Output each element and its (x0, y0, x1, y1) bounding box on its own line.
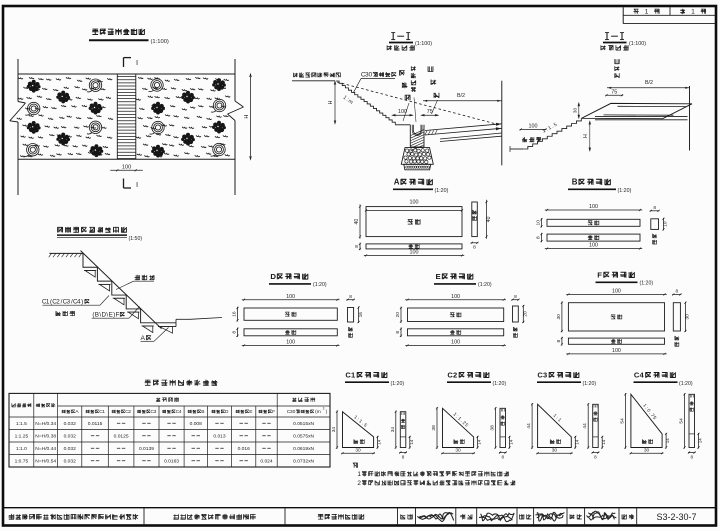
svg-text:54: 54 (619, 418, 625, 424)
A plan height dim 40 (354, 204, 361, 238)
svg-text:1:1.5: 1:1.5 (16, 421, 27, 427)
svg-text:30: 30 (572, 108, 577, 114)
svg-text:(1:20): (1:20) (435, 188, 449, 194)
label 护坡道 (522, 137, 541, 142)
dimension B/2 (cut) (423, 93, 502, 102)
svg-text:100: 100 (589, 243, 598, 249)
elevation slope rectangle outline (10, 59, 244, 195)
C4 front width dim 8 (688, 451, 696, 459)
svg-text:0.0619xN: 0.0619xN (293, 446, 314, 452)
svg-text:14: 14 (665, 438, 670, 444)
C1 right dim 14 (377, 436, 382, 449)
D elevation view 立面 (244, 329, 337, 336)
C4 height dim 54 (619, 393, 626, 449)
shoulder edge height dim 30 (572, 103, 579, 118)
C2 side profile trapezoid 侧面 (443, 408, 474, 447)
svg-text:H: H (328, 100, 334, 104)
A bottom dim 100 (364, 249, 464, 256)
svg-text:N=H/0.44: N=H/0.44 (35, 446, 56, 452)
F plan view 平面 (568, 303, 664, 331)
embankment top parallelogram and road lines (582, 103, 693, 119)
svg-text:38: 38 (431, 425, 437, 431)
svg-text:0.0139: 0.0139 (139, 446, 154, 452)
svg-text:8: 8 (473, 245, 476, 251)
C1 front height dim 34 (390, 411, 397, 449)
svg-text:14: 14 (601, 439, 606, 445)
cut slope steps zigzag (336, 81, 395, 125)
svg-text:44: 44 (582, 423, 588, 429)
C2 front width dim 8 (499, 451, 507, 459)
svg-text:(1:20): (1:20) (313, 282, 327, 288)
svg-text:30: 30 (644, 447, 650, 453)
C3 height dim 44 (526, 403, 533, 449)
C3 side profile trapezoid 侧面 (538, 404, 572, 447)
svg-text:N=H/0.34: N=H/0.34 (35, 421, 56, 427)
svg-text:75: 75 (427, 109, 433, 115)
F side view 侧面 (672, 289, 690, 347)
svg-text:0: 0 (368, 72, 372, 79)
F elevation view 立面 (568, 338, 664, 344)
title C4块大样图 (634, 371, 693, 387)
svg-text:8: 8 (232, 331, 238, 334)
svg-text:0.0732xN: 0.0732xN (293, 459, 314, 465)
notes 注 1 2 (353, 463, 515, 487)
svg-text:30: 30 (685, 314, 691, 320)
A block elevation view 立面 (366, 244, 462, 249)
title 台阶板块布置示意图 (1:50) (57, 227, 142, 242)
svg-text:20: 20 (395, 312, 401, 318)
C1 front view 立面 (400, 412, 406, 448)
embankment height dim H (583, 122, 590, 151)
staircase arrangement blocks (81, 251, 223, 334)
dimension 100 (碎落台) (393, 109, 413, 116)
svg-text:54: 54 (679, 418, 685, 424)
ground line with hatching (49, 253, 83, 257)
svg-text:1: 1 (645, 9, 649, 16)
svg-text:4: 4 (179, 409, 182, 415)
svg-text:100: 100 (398, 109, 407, 115)
C2 bottom dim 30 (441, 447, 475, 454)
A block side view 侧面 (472, 202, 478, 237)
svg-text:14: 14 (509, 439, 514, 445)
drawing title cell (318, 514, 364, 520)
svg-text:100: 100 (410, 200, 419, 206)
svg-text:0.0115: 0.0115 (88, 421, 103, 427)
svg-text:8: 8 (556, 340, 562, 343)
svg-text:38: 38 (490, 425, 496, 431)
svg-text:(1:100): (1:100) (415, 41, 432, 47)
cut slope height dim H (328, 82, 336, 124)
label 路堑平台(被顶) and platform line (292, 72, 341, 80)
B elevation height dim 8 (536, 233, 543, 242)
svg-text:F: F (272, 409, 275, 415)
svg-text:0.032: 0.032 (64, 446, 77, 452)
title bar grid (3, 508, 716, 526)
label 一审 (519, 514, 531, 519)
svg-text:3: 3 (543, 371, 547, 380)
svg-text:44: 44 (526, 423, 532, 429)
C1 height dim 34 (331, 411, 338, 449)
A side height dim 40 (485, 200, 492, 239)
table title 人行踏步工程数量表 (145, 380, 218, 386)
svg-text:14: 14 (409, 439, 414, 445)
svg-text:8: 8 (501, 454, 504, 459)
signature 一审 (535, 512, 564, 521)
C4 slope label 1:0.75 (641, 403, 657, 421)
signature 复核 (479, 513, 514, 522)
C1 slope label 1:1.5 (352, 414, 368, 428)
C4 front view 立面 (689, 394, 695, 447)
vertical label 土路肩 (embankment) (615, 59, 620, 78)
original ground dashed line (337, 82, 500, 125)
C4 right dim 14 (665, 433, 670, 449)
svg-text:m: m (317, 410, 321, 415)
svg-text:(1:20): (1:20) (493, 381, 507, 387)
signature 二审 (586, 511, 616, 520)
title A块大样图 (1:20) (393, 178, 449, 194)
svg-text:F: F (116, 312, 120, 319)
svg-text:100: 100 (612, 348, 621, 354)
svg-text:30: 30 (455, 447, 461, 453)
svg-text:1: 1 (691, 9, 695, 16)
svg-text:2: 2 (128, 409, 131, 415)
road surface lines (cut section) (425, 123, 502, 142)
svg-text:D: D (270, 272, 276, 281)
dimension B/2 (embankment) (607, 80, 690, 89)
dimension 100 below ladder (110, 164, 143, 171)
svg-text:0.013: 0.013 (213, 434, 226, 440)
title 人行踏步立面图 (1:100) (89, 29, 169, 45)
svg-text:40: 40 (486, 216, 492, 222)
svg-text:1:1.25: 1:1.25 (15, 434, 29, 440)
A block plan view 平面 (365, 200, 463, 237)
D side view 侧面 (346, 294, 363, 338)
svg-text:(1:50): (1:50) (129, 236, 143, 242)
svg-text:I: I (136, 58, 138, 67)
C4 front height dim 54 (679, 393, 686, 448)
svg-text:S3-2-30-7: S3-2-30-7 (656, 512, 696, 522)
svg-text:100: 100 (286, 340, 295, 346)
E plan height dim 20 (395, 307, 402, 323)
E top dim 100 (405, 294, 506, 301)
title B块大样图 (1:20) (568, 178, 632, 194)
svg-text:8: 8 (395, 331, 401, 334)
svg-text:0.024: 0.024 (260, 459, 273, 465)
E bottom dim 100 (405, 340, 506, 347)
centerline (embankment) (689, 86, 691, 151)
svg-text:3: 3 (154, 409, 157, 415)
B block elevation view 立面 (547, 234, 640, 241)
C3 slope label 1:1 (552, 413, 563, 424)
F bottom dim 100 (566, 348, 667, 355)
svg-text:): ) (81, 299, 83, 306)
svg-text:N=H/0.54: N=H/0.54 (35, 459, 56, 465)
dimension 75 (边沟) (422, 109, 439, 116)
title C3块大样图 (537, 371, 596, 387)
svg-text:100: 100 (589, 204, 598, 210)
svg-text:0.032: 0.032 (64, 434, 77, 440)
B block side view 侧面 (650, 205, 669, 244)
svg-text:16: 16 (358, 312, 364, 318)
svg-text:E: E (436, 272, 441, 281)
side ditch U channel (395, 125, 424, 151)
svg-text:B: B (95, 312, 99, 319)
vertical label 碎落台 (399, 70, 410, 121)
B bottom dim 100 (545, 243, 642, 250)
svg-text:100: 100 (122, 164, 131, 170)
svg-text:20: 20 (523, 311, 529, 317)
svg-text:1: 1 (351, 371, 355, 380)
svg-text:100: 100 (451, 294, 460, 300)
svg-text:(1:100): (1:100) (151, 39, 169, 45)
svg-text:10: 10 (663, 221, 669, 227)
E elevation height dim 8 (395, 328, 402, 337)
svg-text:A: A (394, 178, 400, 187)
C3 front view 立面 (593, 404, 599, 447)
svg-text:0.0163: 0.0163 (164, 459, 179, 465)
C3 front width dim 8 (592, 451, 600, 459)
page number box 第1页/共1页 (623, 7, 716, 23)
svg-text:75: 75 (611, 89, 617, 95)
svg-text:34: 34 (390, 427, 396, 433)
svg-text:8: 8 (354, 245, 360, 248)
E side view 侧面 (511, 294, 528, 338)
svg-text:30: 30 (556, 314, 562, 320)
svg-text:1:1.0: 1:1.0 (16, 446, 27, 452)
svg-text:100: 100 (612, 289, 621, 295)
vertical label 土路肩 (428, 66, 439, 114)
svg-text:8: 8 (594, 454, 597, 459)
svg-text:14: 14 (377, 439, 382, 445)
label A块 with leader (141, 328, 169, 343)
C2 slope label 1:1.25 (452, 412, 470, 429)
svg-text:16: 16 (232, 311, 238, 317)
svg-text:1:0.75: 1:0.75 (15, 459, 29, 465)
svg-text:30: 30 (355, 447, 361, 453)
table data cells (15, 421, 315, 465)
svg-text:(1:100): (1:100) (629, 41, 646, 47)
svg-text:8: 8 (349, 294, 352, 300)
C3 right dim 14 (574, 436, 579, 449)
D plan height dim 16 (232, 307, 239, 322)
label C1(C2/C3/C4)块 侧面板 (42, 296, 109, 317)
B plan height dim 10 (536, 218, 543, 227)
svg-text:14: 14 (477, 439, 482, 445)
embankment slope steps zigzag (510, 118, 581, 152)
centerline (cut section) (501, 81, 503, 166)
C2 front height dim 38 (490, 407, 497, 448)
svg-text:100: 100 (529, 123, 538, 129)
C3 bottom dim 30 (536, 447, 572, 454)
svg-text:N=H/0.38: N=H/0.38 (35, 434, 56, 440)
vertical label 路堑边沟 (411, 66, 416, 122)
D plan view 平面 (244, 308, 337, 320)
svg-text:14: 14 (698, 438, 703, 444)
label 复核 (460, 514, 472, 519)
height dimension H right side (244, 74, 251, 159)
ditch foundation pebble block (401, 148, 433, 170)
grass texture small marks (17, 77, 230, 157)
C1 front 14 dim (409, 436, 414, 449)
svg-text:8: 8 (653, 205, 656, 211)
svg-text:10: 10 (536, 220, 542, 226)
svg-text:3: 3 (323, 407, 325, 411)
D bottom dim 100 (242, 340, 340, 347)
svg-text:30: 30 (552, 447, 558, 453)
title C1块大样图 (345, 371, 404, 387)
C1 bottom dim 30 (341, 447, 375, 454)
svg-text:H: H (583, 134, 589, 138)
svg-text:8: 8 (514, 294, 517, 300)
svg-text:8: 8 (536, 236, 542, 239)
svg-text:2: 2 (453, 371, 457, 380)
svg-text:0.0125: 0.0125 (114, 434, 129, 440)
svg-text:1: 1 (102, 409, 105, 415)
C4 front 14 dim (697, 433, 702, 449)
A elevation height dim 8 (354, 243, 361, 250)
svg-text:0.016: 0.016 (238, 446, 251, 452)
svg-text:34: 34 (331, 427, 337, 433)
svg-text:100: 100 (410, 249, 419, 255)
central steps ladder strip (117, 74, 136, 159)
svg-text:0.0575xN: 0.0575xN (293, 434, 314, 440)
svg-text:(1:20): (1:20) (478, 282, 492, 288)
svg-text:H: H (244, 115, 250, 119)
company name cell (9, 514, 139, 520)
label C30砼预制块 with leader (354, 72, 397, 93)
F top dim 100 (566, 289, 667, 296)
title D块大样图 (269, 272, 327, 288)
title F块大样图 (596, 271, 654, 287)
C4 bottom dim 30 (630, 447, 664, 454)
B block plan view 平面 (547, 219, 640, 226)
drawing number S3-2-30-7 (656, 512, 696, 522)
slope ratio 1:1.5 label (542, 122, 559, 135)
svg-text:100: 100 (451, 340, 460, 346)
svg-text:F: F (597, 271, 602, 280)
D elevation height dim 8 (232, 328, 239, 337)
dimension 75 (embankment) (605, 89, 623, 96)
section title I-I 路堑边坡 (1:100) (387, 33, 432, 51)
title E块大样图 (434, 272, 492, 288)
slope ratio 1:m label (342, 95, 355, 106)
flower bush symbols (27, 78, 226, 157)
svg-text:(1:20): (1:20) (618, 188, 632, 194)
svg-text:2: 2 (357, 480, 361, 487)
F plan height dim 30 (556, 302, 563, 333)
svg-text:B: B (572, 178, 578, 187)
table header texts (12, 397, 328, 415)
svg-text:0.008: 0.008 (190, 421, 203, 427)
svg-text:8: 8 (402, 454, 405, 459)
A side width dim 8 (471, 242, 479, 251)
svg-text:14: 14 (574, 439, 579, 445)
label (B D E)F块 (92, 307, 140, 319)
C3 front 14 dim (601, 436, 606, 449)
svg-text:(1:20): (1:20) (679, 381, 693, 387)
spiral plant symbols (24, 79, 225, 157)
C1 side profile trapezoid 侧面 (343, 412, 374, 448)
C1 front width dim 8 (399, 451, 407, 459)
svg-text:40: 40 (354, 219, 360, 225)
signature 设计 (417, 513, 453, 522)
svg-text:(1:20): (1:20) (640, 281, 654, 287)
svg-text:I: I (136, 180, 138, 189)
C2 front 14 dim (508, 436, 513, 449)
svg-text:8: 8 (690, 454, 693, 459)
F elevation height dim 8 (556, 337, 563, 346)
svg-text:D: D (225, 409, 229, 415)
label 图号 (622, 514, 634, 519)
C4 side profile trapezoid 侧面 (631, 394, 662, 447)
project name cell (173, 514, 256, 520)
svg-text:100: 100 (286, 294, 295, 300)
E plan view 平面 (408, 308, 504, 322)
title C2块大样图 (447, 371, 506, 387)
svg-text:1: 1 (357, 471, 361, 478)
svg-text:8: 8 (676, 289, 679, 295)
section cut markers I-I (124, 58, 139, 189)
C3 front height dim 44 (582, 403, 589, 448)
svg-text:0: 0 (293, 409, 296, 415)
C2 right dim 14 (477, 436, 482, 449)
svg-text:0.032: 0.032 (64, 421, 77, 427)
dimension 100 护坡道 (520, 123, 547, 130)
svg-text:B/2: B/2 (645, 80, 653, 86)
section title I-I 路堤边坡 (1:100) (601, 33, 647, 51)
label 设计 (401, 514, 413, 519)
E elevation view 立面 (408, 329, 504, 336)
label 二审 (570, 514, 582, 519)
svg-text:B/2: B/2 (457, 93, 465, 99)
B top dim 100 (545, 204, 642, 211)
label 坡面线 with leader (116, 275, 154, 290)
svg-text:(1:20): (1:20) (391, 381, 405, 387)
quantity table grid (9, 393, 330, 467)
C2 front view 立面 (500, 408, 506, 447)
svg-text:(1:20): (1:20) (583, 381, 597, 387)
svg-text:0.0515xN: 0.0515xN (293, 421, 314, 427)
C2 height dim 38 (431, 407, 438, 449)
D top dim 100 (242, 294, 340, 301)
svg-text:0.032: 0.032 (64, 459, 77, 465)
